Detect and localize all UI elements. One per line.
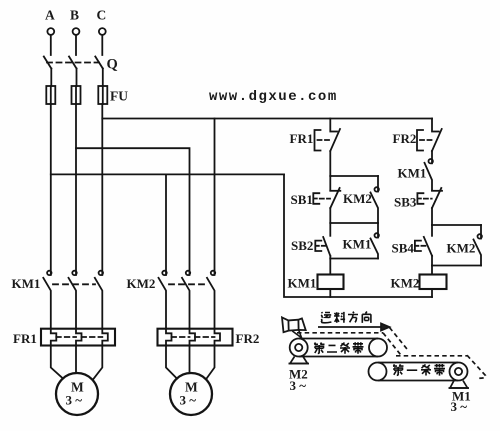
svg-text:FR2: FR2 <box>393 131 417 146</box>
svg-text:KM2: KM2 <box>391 276 420 291</box>
svg-text:SB2: SB2 <box>291 238 313 253</box>
svg-text:3 ~: 3 ~ <box>451 399 468 414</box>
svg-text:SB4: SB4 <box>392 241 415 256</box>
svg-text:KM1: KM1 <box>343 237 372 252</box>
svg-text:KM1: KM1 <box>398 166 427 181</box>
svg-text:KM2: KM2 <box>447 241 476 256</box>
svg-text:KM2: KM2 <box>127 276 156 291</box>
svg-text:A: A <box>45 8 55 23</box>
svg-text:3 ~: 3 ~ <box>66 393 83 408</box>
svg-text:SB1: SB1 <box>291 192 313 207</box>
svg-text:KM1: KM1 <box>12 276 41 291</box>
svg-text:FR1: FR1 <box>13 331 37 346</box>
svg-text:SB3: SB3 <box>394 195 417 210</box>
svg-text:C: C <box>97 8 107 23</box>
svg-text:KM1: KM1 <box>288 276 317 291</box>
svg-text:FR2: FR2 <box>236 331 260 346</box>
svg-text:www.dgxue.com: www.dgxue.com <box>209 89 338 105</box>
svg-text:FU: FU <box>110 89 128 104</box>
svg-text:3 ~: 3 ~ <box>290 378 307 393</box>
svg-text:FR1: FR1 <box>290 131 314 146</box>
svg-text:Q: Q <box>107 57 118 73</box>
svg-text:B: B <box>70 8 79 23</box>
svg-text:3 ~: 3 ~ <box>180 393 197 408</box>
svg-text:KM2: KM2 <box>343 191 372 206</box>
